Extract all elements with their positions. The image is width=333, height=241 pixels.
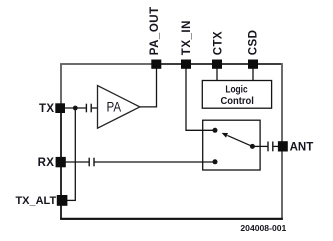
node junction dot at TX xyxy=(73,106,78,111)
chip boundary top edge segment between pads (dark) xyxy=(152,63,281,65)
wire TX_IN pad down to switch upper throw xyxy=(186,66,214,130)
wire switch pole to ANT capacitor xyxy=(252,145,267,147)
pad TX xyxy=(55,103,65,113)
wire PA output to PA_OUT pad xyxy=(140,66,157,107)
capacitor (TX coupling) xyxy=(86,104,91,113)
wire ANT capacitor to ANT pad xyxy=(273,145,279,147)
wire TX junction down to TX_ALT (vertical) xyxy=(74,108,76,200)
logic control block U2 xyxy=(202,81,271,109)
wire RX capacitor to switch lower throw xyxy=(94,161,214,163)
pad TX_ALT xyxy=(57,195,68,206)
pad RX xyxy=(56,157,66,167)
pad ANT xyxy=(278,141,288,151)
svg-text:CSD: CSD xyxy=(248,30,260,55)
chip boundary left edge lower segment (dark) xyxy=(60,104,62,219)
svg-text:Control: Control xyxy=(221,96,255,107)
op-amp / power amplifier PA xyxy=(98,86,140,129)
switch wiper arm with arrowhead xyxy=(222,133,253,147)
wire capacitor to PA input xyxy=(91,107,97,109)
pad PA_OUT xyxy=(151,60,161,69)
chip boundary (outer box) xyxy=(61,64,282,219)
switch block S1 xyxy=(203,120,260,170)
switch pole node (right, to ANT) xyxy=(250,144,255,149)
chip boundary bottom edge (dark) xyxy=(60,218,283,220)
pad TX_IN xyxy=(181,60,191,69)
svg-text:PA_OUT: PA_OUT xyxy=(149,6,161,55)
svg-text:PA: PA xyxy=(107,100,122,115)
svg-text:RX: RX xyxy=(38,157,55,169)
switch throw node (lower) xyxy=(213,159,218,164)
svg-text:TX: TX xyxy=(39,103,54,115)
pad CTX xyxy=(212,60,222,69)
wire CSD pad to logic control xyxy=(252,66,254,81)
wire RX pad to coupling capacitor xyxy=(64,161,89,163)
wire TX pad to coupling capacitor xyxy=(64,107,86,109)
svg-text:TX_ALT: TX_ALT xyxy=(15,195,56,207)
capacitor (RX coupling) xyxy=(89,158,94,167)
svg-text:TX_IN: TX_IN xyxy=(181,20,193,55)
pad CSD xyxy=(248,60,258,69)
svg-text:Logic: Logic xyxy=(225,85,248,96)
svg-text:204008-001: 204008-001 xyxy=(240,223,286,233)
wire TX_ALT pad to vertical wire xyxy=(67,199,76,201)
svg-text:CTX: CTX xyxy=(212,31,224,55)
switch throw node (upper) xyxy=(213,128,218,133)
svg-text:ANT: ANT xyxy=(290,141,314,153)
wire CTX pad to logic control xyxy=(216,66,218,81)
capacitor (ANT coupling) xyxy=(268,142,273,152)
